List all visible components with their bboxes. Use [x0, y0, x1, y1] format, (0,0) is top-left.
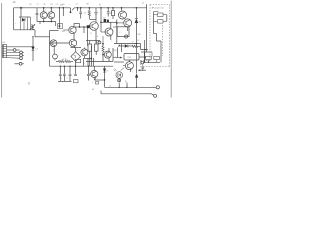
svg-text:+: + [70, 4, 71, 6]
svg-text:C9: C9 [137, 40, 139, 42]
svg-text:R1: R1 [30, 4, 32, 6]
svg-text:1k: 1k [84, 13, 86, 15]
svg-text:R2: R2 [44, 4, 46, 6]
svg-text:R16: R16 [138, 34, 141, 36]
svg-text:C3: C3 [76, 4, 78, 6]
svg-text:D9: D9 [139, 21, 141, 23]
svg-text:R6: R6 [87, 4, 89, 6]
svg-text:C2: C2 [56, 4, 58, 6]
svg-text:R18: R18 [114, 50, 117, 52]
svg-text:.1: .1 [61, 78, 62, 80]
svg-text:.1: .1 [66, 78, 67, 80]
svg-text:R4: R4 [62, 4, 64, 6]
svg-text:D1: D1 [36, 49, 38, 51]
svg-text:D2: D2 [103, 17, 105, 19]
svg-text:R3: R3 [51, 4, 53, 6]
svg-text:1A: 1A [13, 1, 16, 4]
svg-text:AF power unit: AF power unit [152, 7, 164, 10]
svg-text:D7: D7 [106, 71, 108, 73]
svg-text:10n: 10n [110, 12, 113, 14]
svg-text:d: d [97, 36, 98, 38]
svg-text:a: a [92, 82, 93, 84]
svg-text:100: 100 [62, 31, 65, 33]
svg-text:C1: C1 [37, 4, 39, 6]
